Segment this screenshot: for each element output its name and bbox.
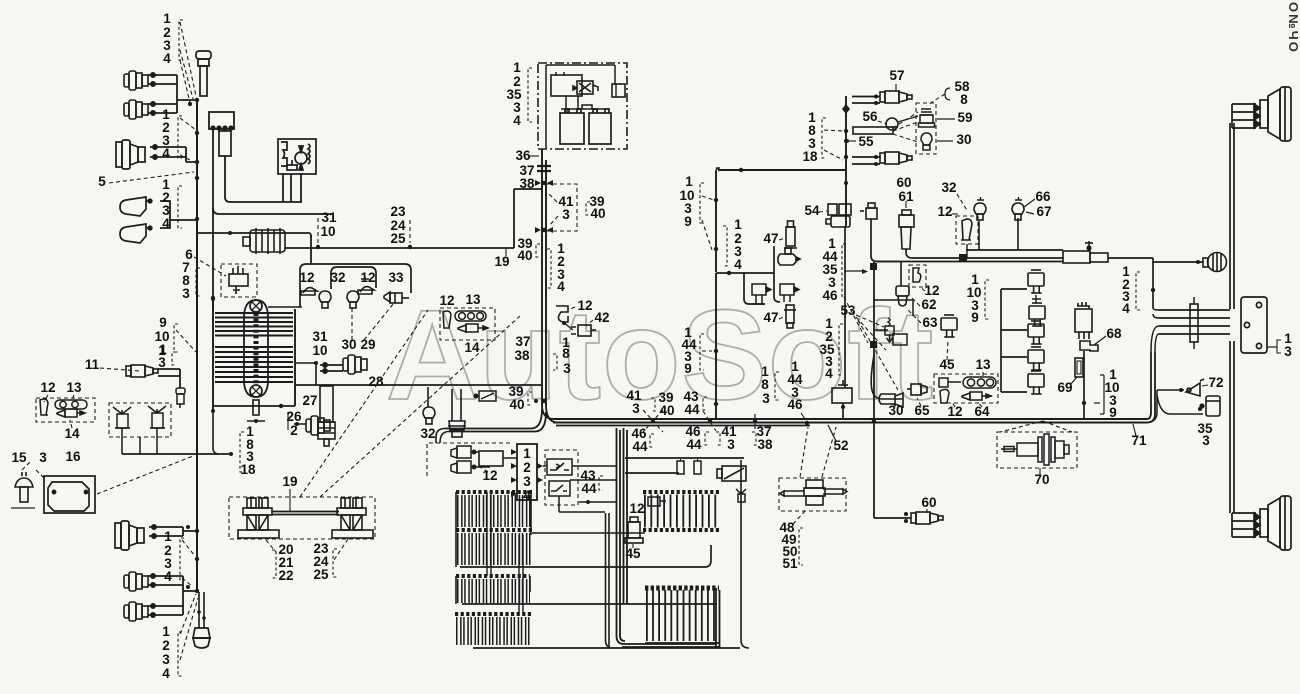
svg-text:12: 12: [299, 270, 314, 285]
bracket 12c: [556, 306, 568, 322]
svg-text:32: 32: [941, 180, 956, 195]
pass wire a: [487, 492, 491, 576]
wire pair X6: [148, 604, 183, 617]
wire elbow X5X6: [183, 576, 197, 615]
svg-text:13: 13: [465, 292, 481, 307]
wire 35r: [1157, 395, 1203, 414]
junction: [195, 557, 199, 561]
wire 60r: [874, 517, 911, 519]
leader: [180, 118, 196, 130]
flasher 12f: [474, 391, 496, 401]
wires 66 67: [979, 218, 1018, 250]
svg-text:3: 3: [158, 355, 166, 370]
fuse bar: [272, 512, 339, 515]
comp 12 r: [961, 219, 972, 240]
connector X5: [124, 572, 148, 591]
trunk junction C: [542, 399, 546, 403]
relay Rb: [1029, 303, 1045, 326]
sensor 67b: [974, 203, 986, 220]
comp 61: [899, 210, 914, 249]
svg-text:23: 23: [390, 204, 406, 219]
bus x716: [715, 171, 717, 272]
junction: [316, 245, 320, 249]
circle 56: [886, 118, 898, 130]
svg-text:36: 36: [515, 148, 531, 163]
heater capsule: [244, 300, 268, 397]
switch 48-51: [780, 480, 847, 505]
svg-text:9: 9: [1109, 405, 1117, 420]
heater bottom wire: [213, 405, 295, 407]
pass wire b: [519, 535, 523, 614]
svg-text:70: 70: [1034, 472, 1049, 487]
bracket 12: [40, 399, 48, 415]
sensor S4: [384, 292, 409, 303]
bus 458: [625, 458, 744, 473]
svg-text:9: 9: [684, 361, 692, 376]
switch 48-51 box: [779, 478, 846, 511]
comb1 frame: [456, 492, 531, 567]
plug 14: [57, 409, 85, 417]
bracket 12b: [940, 389, 949, 403]
comp blockr: [893, 334, 907, 345]
svg-text:14: 14: [64, 426, 80, 441]
block connector K1: [209, 112, 234, 130]
svg-text:3: 3: [182, 286, 190, 301]
wire to lamp: [1108, 258, 1203, 262]
horn H1: [120, 197, 152, 216]
horn H2: [120, 224, 152, 243]
plug 60r: [911, 512, 943, 524]
svg-text:51: 51: [782, 556, 798, 571]
comb link wire: [532, 532, 645, 534]
junction: [872, 419, 876, 423]
junction: [714, 198, 718, 202]
connector X4 big: [115, 521, 144, 550]
svg-text:4: 4: [825, 366, 833, 381]
leader 70: [1000, 421, 1043, 432]
side lamp: [1203, 253, 1227, 272]
valve plunger: [885, 318, 894, 342]
leader 16: [97, 456, 193, 494]
trunk third: [556, 425, 810, 427]
left drop: [436, 429, 449, 444]
svg-text:25: 25: [313, 567, 329, 582]
comp 47 upper: [784, 221, 797, 248]
comp 54: [826, 204, 851, 227]
svg-text:44: 44: [684, 402, 700, 417]
comp 65: [907, 384, 927, 395]
distributor box: [221, 264, 257, 297]
comp 12 box r2: [909, 265, 926, 287]
comb ru bottom: [643, 528, 719, 532]
junction: [805, 421, 809, 425]
svg-text:12: 12: [629, 501, 644, 516]
ribbon clamp: [1190, 304, 1198, 342]
junction: [211, 296, 215, 300]
svg-text:66: 66: [1035, 189, 1051, 204]
svg-text:37: 37: [515, 334, 530, 349]
long leader B: [320, 316, 520, 497]
svg-text:32: 32: [420, 426, 435, 441]
leaders 55-59: [893, 112, 918, 128]
svg-text:2: 2: [523, 460, 531, 475]
sensor S2: [319, 291, 331, 308]
svg-text:1: 1: [164, 529, 172, 544]
svg-text:63: 63: [922, 315, 938, 330]
trunk verticals B: [606, 513, 614, 648]
wire 12r: [966, 244, 968, 258]
vert x874: [873, 262, 875, 518]
stub wire: [197, 233, 311, 264]
glow plug P1: [196, 51, 211, 96]
main bus left: [196, 100, 198, 592]
connector X6: [124, 602, 148, 621]
svg-text:65: 65: [914, 403, 930, 418]
plug 64: [962, 392, 992, 400]
horn wires: [160, 201, 197, 228]
wire ladder down: [213, 413, 219, 454]
svg-text:9: 9: [684, 214, 692, 229]
svg-text:4: 4: [163, 51, 171, 66]
lamp 30: [921, 133, 932, 150]
svg-text:72: 72: [1208, 375, 1223, 390]
right drop: [741, 460, 749, 648]
ribbon fan: [1151, 308, 1159, 352]
relay Ra: [1028, 270, 1044, 293]
svg-text:71: 71: [1131, 433, 1147, 448]
leader 5: [109, 172, 194, 183]
heater spiral strip: [254, 313, 259, 384]
tick 46: [801, 413, 805, 419]
svg-text:69: 69: [1057, 380, 1072, 395]
aux box: [612, 84, 625, 97]
wire 42c: [563, 322, 573, 330]
svg-text:12: 12: [577, 298, 592, 313]
fusebox dashed: [229, 497, 375, 539]
relay block 1-4: [517, 444, 537, 500]
relay Rd: [1028, 347, 1044, 370]
vert right pair: [1230, 123, 1234, 309]
panel dashed box: [427, 443, 510, 476]
svg-text:40: 40: [517, 248, 532, 263]
conn C1: [752, 284, 771, 304]
box 12-13-14 mid: [440, 308, 495, 340]
wire 60 down: [871, 219, 899, 262]
comb row1a left: [456, 492, 532, 511]
bus y250: [966, 249, 1063, 251]
distributor: [229, 266, 248, 294]
svg-text:16: 16: [65, 449, 81, 464]
relay R2: [549, 481, 570, 496]
svg-text:3: 3: [563, 361, 571, 376]
wire 28: [295, 384, 541, 386]
fuse connector 20-22: [238, 498, 279, 538]
cable down: [199, 592, 204, 628]
wire 27 feed: [314, 361, 318, 365]
svg-text:18: 18: [802, 149, 818, 164]
relay feed: [1000, 289, 1002, 392]
svg-text:14: 14: [464, 340, 480, 355]
chain link 13m: [455, 311, 486, 321]
svg-text:12: 12: [360, 270, 375, 285]
comp 35r: [1200, 396, 1220, 416]
ribbon wires: [1159, 310, 1230, 334]
wire y273: [716, 272, 774, 274]
junction sq2: [870, 263, 877, 270]
relay block pins: [511, 449, 543, 497]
comb3 bottom wire: [473, 647, 740, 649]
comb right lower: [645, 588, 719, 616]
svg-text:1: 1: [562, 335, 570, 350]
heater top wire: [268, 306, 302, 308]
svg-text:30: 30: [341, 337, 356, 352]
svg-text:4: 4: [513, 113, 521, 128]
wire 11: [158, 369, 180, 376]
svg-text:1: 1: [162, 624, 170, 639]
comp 62: [896, 286, 909, 306]
junction: [708, 419, 712, 423]
svg-text:2: 2: [162, 638, 170, 653]
comb2 bottom wire: [462, 603, 717, 605]
svg-text:8: 8: [960, 92, 968, 107]
trunk junction B: [542, 228, 546, 232]
comp 47 lower: [784, 305, 796, 328]
leader: [180, 594, 196, 634]
resistor under K1: [219, 131, 231, 156]
comp 30 b: [879, 393, 903, 407]
leader lines: [180, 22, 196, 96]
svg-text:4: 4: [162, 146, 170, 161]
svg-text:40: 40: [659, 403, 674, 418]
svg-text:55: 55: [858, 134, 874, 149]
svg-text:1: 1: [734, 217, 742, 232]
junction: [211, 297, 215, 301]
svg-text:19: 19: [494, 254, 509, 269]
comp 60: [860, 203, 877, 219]
svg-text:12: 12: [439, 293, 454, 308]
plug 11: [126, 365, 158, 377]
svg-text:3: 3: [162, 652, 170, 667]
tick: [1094, 402, 1100, 404]
leader: [182, 540, 195, 556]
conn C2: [780, 284, 799, 302]
svg-text:12: 12: [924, 283, 939, 298]
svg-text:64: 64: [974, 404, 990, 419]
comp 45r: [941, 315, 957, 337]
sensor loop bus: [300, 264, 411, 307]
box wiring: [546, 65, 615, 149]
svg-text:40: 40: [509, 397, 524, 412]
battery B1: [560, 109, 584, 144]
wire 61 down: [906, 249, 1063, 258]
comb row1b left: [456, 530, 532, 549]
junction sq: [959, 254, 967, 262]
central trunk: [542, 149, 546, 405]
horn 72: [1186, 379, 1204, 396]
relay 52: [832, 380, 852, 403]
svg-text:60: 60: [921, 495, 936, 510]
comb1 bottom wire: [460, 545, 711, 567]
leader: [824, 130, 843, 131]
comp 68 head: [1075, 302, 1092, 339]
leader 6: [194, 257, 226, 276]
wire 72: [1157, 389, 1184, 391]
loop wires: [874, 300, 913, 330]
fuse connector 23-25: [332, 498, 373, 538]
svg-text:3: 3: [562, 207, 570, 222]
sleeve 69: [1075, 358, 1083, 377]
relays dashed box: [545, 450, 578, 505]
box 41-3 dashed: [546, 184, 577, 231]
comp 12 box r: [956, 216, 978, 244]
svg-text:1: 1: [163, 11, 171, 26]
svg-text:10: 10: [312, 343, 327, 358]
chain 13r: [963, 377, 996, 388]
trunk hatch: [537, 166, 551, 171]
trunk junction A: [542, 181, 546, 185]
svg-text:30: 30: [956, 132, 971, 147]
valve wires: [122, 428, 157, 454]
svg-text:3: 3: [523, 474, 531, 489]
svg-text:9: 9: [971, 310, 979, 325]
battery B2: [589, 109, 611, 144]
svg-text:3: 3: [1284, 344, 1292, 359]
vert x1153: [1152, 262, 1154, 308]
trunk verticals: [617, 428, 717, 644]
leader 15: [22, 462, 30, 470]
diamond junction: [842, 104, 850, 114]
svg-text:44: 44: [581, 481, 597, 496]
leader: [570, 307, 575, 309]
long leader A: [300, 310, 428, 497]
fuse F2: [694, 461, 701, 474]
sensor S1: [301, 288, 317, 295]
vert right pair low: [1230, 341, 1234, 513]
svg-text:31: 31: [312, 329, 328, 344]
plate 16: [44, 476, 95, 513]
valve box dashed: [109, 403, 171, 437]
junction: [844, 129, 848, 133]
svg-text:56: 56: [862, 109, 878, 124]
svg-text:60: 60: [896, 175, 911, 190]
relay Re: [1028, 371, 1044, 394]
svg-text:4: 4: [734, 257, 742, 272]
wire y454: [122, 453, 231, 455]
leader: [176, 330, 196, 352]
wire elbow X4: [183, 527, 197, 536]
svg-text:44: 44: [632, 439, 648, 454]
comp 12 r2: [913, 268, 921, 282]
svg-text:32: 32: [330, 270, 345, 285]
leader: [44, 395, 48, 402]
relay Rc: [1028, 321, 1044, 344]
heater circle top: [250, 300, 262, 312]
svg-text:1: 1: [523, 446, 531, 461]
heater stem: [253, 400, 259, 415]
comb row3 left: [455, 614, 531, 631]
svg-text:3: 3: [39, 450, 47, 465]
wire 68 down: [1083, 351, 1085, 419]
junction: [1151, 288, 1155, 292]
fuse F1: [677, 461, 684, 474]
svg-text:13: 13: [975, 357, 991, 372]
comb right upper: [643, 492, 719, 511]
wires P: [471, 452, 517, 467]
svg-text:5: 5: [98, 174, 106, 189]
heater circle bottom: [250, 385, 262, 397]
junction bus716: [714, 349, 718, 353]
sensor loop bus inner: [331, 267, 376, 289]
svg-text:46: 46: [822, 288, 838, 303]
wire pair X1: [148, 73, 177, 86]
svg-text:10: 10: [320, 224, 335, 239]
bus 716 contd: [715, 273, 717, 395]
harness curve: [871, 355, 903, 399]
svg-text:59: 59: [957, 110, 972, 125]
funnel 47: [778, 248, 800, 265]
svg-text:38: 38: [519, 176, 535, 191]
svg-text:31: 31: [321, 210, 337, 225]
box 70: [997, 432, 1077, 468]
junction: [753, 419, 757, 423]
svg-text:25: 25: [390, 231, 406, 246]
svg-text:4: 4: [162, 216, 170, 231]
svg-text:12: 12: [937, 204, 952, 219]
svg-text:46: 46: [787, 397, 803, 412]
junction: [195, 98, 199, 102]
svg-text:О№ЧО: О№ЧО: [1286, 2, 1300, 54]
svg-text:12: 12: [40, 380, 55, 395]
comp 68 pipe: [1080, 341, 1098, 351]
relay diag: [717, 466, 746, 481]
relay stubs: [1001, 289, 1027, 392]
svg-text:26: 26: [286, 409, 302, 424]
wire pair X3: [150, 145, 186, 159]
svg-text:18: 18: [240, 462, 256, 477]
bracket 12m: [443, 311, 451, 328]
svg-text:4: 4: [162, 666, 170, 681]
trunk fan: [445, 405, 558, 432]
junction X1: [651, 419, 655, 423]
svg-text:19: 19: [282, 474, 297, 489]
bus y262: [877, 261, 1063, 263]
box 12-64: [934, 374, 998, 403]
relay box 5: [278, 139, 316, 174]
wire pair X2: [148, 102, 177, 115]
leader 46: [844, 297, 868, 343]
bus x847: [845, 96, 847, 226]
relay R1: [547, 459, 572, 475]
svg-text:4: 4: [1122, 301, 1130, 316]
svg-text:38: 38: [514, 348, 530, 363]
plate right: [1241, 297, 1267, 353]
wire K1 mid: [225, 156, 302, 202]
comb2 frame: [456, 576, 530, 604]
leader: [702, 196, 714, 200]
switch 12 rect: [479, 451, 503, 466]
valve V2: [148, 406, 166, 428]
switch leaders: [800, 427, 808, 477]
wire y171: [718, 169, 846, 171]
comp 59: [919, 109, 935, 127]
svg-text:33: 33: [388, 270, 404, 285]
component 42c: [571, 325, 596, 336]
plug cap bottom: [193, 628, 210, 648]
sq 12: [939, 378, 948, 387]
wire y213: [213, 208, 332, 214]
svg-text:57: 57: [889, 68, 904, 83]
comb row2 left: [456, 576, 530, 591]
